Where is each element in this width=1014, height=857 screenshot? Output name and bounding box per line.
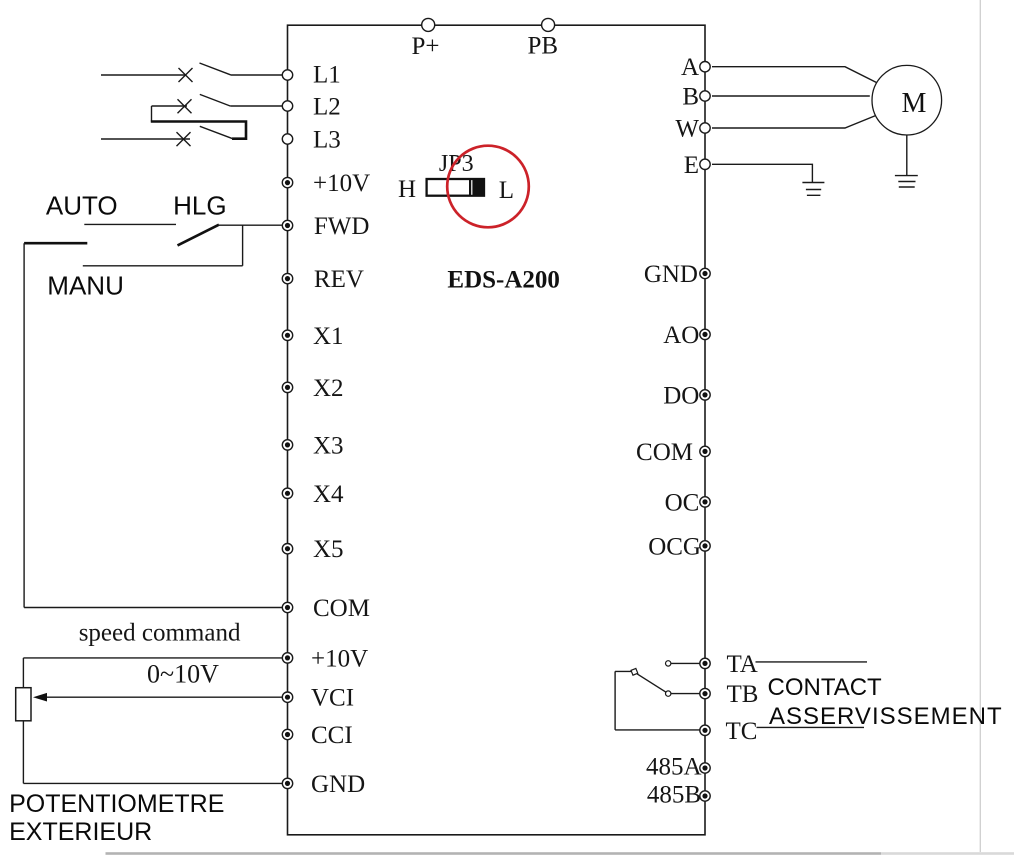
svg-text:X2: X2 xyxy=(313,375,344,402)
svg-text:VCI: VCI xyxy=(311,685,354,712)
svg-text:B: B xyxy=(682,84,699,111)
svg-text:E: E xyxy=(684,152,699,179)
svg-text:+10V: +10V xyxy=(311,645,368,672)
svg-text:W: W xyxy=(675,116,699,143)
svg-text:CONTACT: CONTACT xyxy=(768,674,883,701)
svg-text:AO: AO xyxy=(663,322,699,349)
svg-text:speed command: speed command xyxy=(79,620,241,647)
svg-text:MANU: MANU xyxy=(47,271,124,301)
svg-text:A: A xyxy=(681,54,699,81)
svg-text:CCI: CCI xyxy=(311,722,353,749)
svg-text:L: L xyxy=(499,177,514,204)
svg-text:X5: X5 xyxy=(313,536,344,563)
svg-text:X4: X4 xyxy=(313,481,344,508)
svg-text:P+: P+ xyxy=(412,33,440,60)
svg-text:JP3: JP3 xyxy=(439,151,474,177)
svg-text:AUTO: AUTO xyxy=(46,191,118,221)
svg-text:DO: DO xyxy=(663,382,699,409)
svg-text:L3: L3 xyxy=(313,127,341,154)
svg-text:COM: COM xyxy=(313,595,370,622)
svg-text:HLG: HLG xyxy=(173,191,226,221)
svg-text:0~10V: 0~10V xyxy=(147,660,219,689)
svg-text:OCG: OCG xyxy=(648,533,701,560)
svg-text:EXTERIEUR: EXTERIEUR xyxy=(9,818,152,846)
svg-text:REV: REV xyxy=(314,266,364,293)
svg-text:TA: TA xyxy=(727,651,758,678)
svg-text:GND: GND xyxy=(311,771,365,798)
svg-text:X1: X1 xyxy=(313,323,344,350)
svg-text:485B: 485B xyxy=(647,782,701,809)
svg-text:L1: L1 xyxy=(313,62,341,89)
svg-text:ASSERVISSEMENT: ASSERVISSEMENT xyxy=(769,703,1003,730)
svg-text:OC: OC xyxy=(665,489,700,516)
svg-text:GND: GND xyxy=(644,261,698,288)
svg-text:+10V: +10V xyxy=(313,170,370,197)
svg-text:COM: COM xyxy=(636,439,693,466)
svg-text:EDS-A200: EDS-A200 xyxy=(447,267,560,294)
svg-text:TB: TB xyxy=(727,681,759,708)
svg-text:M: M xyxy=(902,88,927,119)
svg-text:L2: L2 xyxy=(313,94,341,121)
svg-text:PB: PB xyxy=(528,33,559,60)
svg-text:TC: TC xyxy=(726,718,758,745)
svg-text:X3: X3 xyxy=(313,432,344,459)
svg-text:POTENTIOMETRE: POTENTIOMETRE xyxy=(9,790,224,818)
svg-text:FWD: FWD xyxy=(314,213,370,240)
svg-text:H: H xyxy=(398,176,416,203)
svg-text:485A: 485A xyxy=(646,754,702,781)
